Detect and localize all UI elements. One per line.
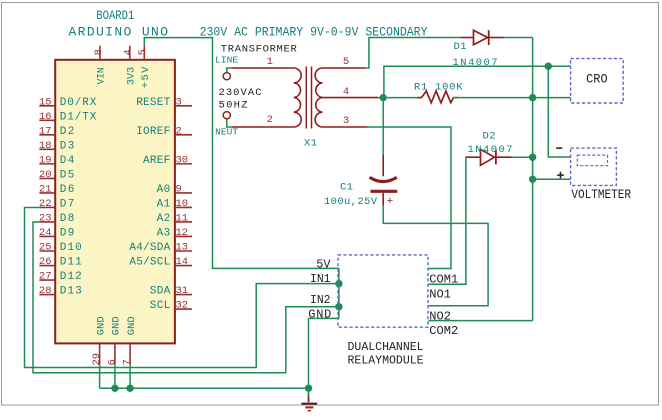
wire GND pin7 down [129, 364, 131, 388]
svg-text:AREF: AREF [143, 155, 170, 167]
wire CRO top lead [384, 66, 571, 97]
svg-text:D2: D2 [483, 130, 496, 142]
label plus [557, 174, 564, 176]
svg-text:D9: D9 [60, 227, 75, 239]
svg-text:8: 8 [93, 49, 105, 55]
wire ground rail [100, 387, 309, 389]
relay module box [338, 255, 428, 327]
pin 8 VIN (top) [93, 46, 108, 85]
svg-text:5V: 5V [316, 257, 331, 271]
wire pin4 to junction [378, 97, 383, 99]
svg-text:D12: D12 [60, 271, 82, 283]
ground symbol [301, 388, 317, 410]
pin 12 A3 (right) [157, 227, 193, 240]
svg-text:20: 20 [39, 169, 52, 181]
svg-text:6: 6 [106, 359, 118, 365]
svg-text:D2: D2 [60, 126, 75, 138]
pin 26 D11 (left) [39, 256, 82, 269]
wire C1 to NO2 [383, 205, 488, 306]
pin 3 RESET (right) [136, 96, 192, 109]
pin 4 wire X1 [323, 97, 379, 99]
svg-text:A5/SCL: A5/SCL [129, 257, 170, 269]
svg-text:GND: GND [126, 316, 138, 335]
svg-text:D6: D6 [60, 184, 75, 196]
svg-text:10: 10 [176, 198, 189, 210]
terminal LINE circle [223, 73, 230, 80]
junction GND pin7 [126, 385, 133, 392]
svg-text:29: 29 [91, 353, 103, 366]
wire NEUT terminal to pin2 [227, 119, 232, 127]
svg-text:1N4007: 1N4007 [468, 144, 513, 156]
svg-text:RELAYMODULE: RELAYMODULE [348, 354, 424, 368]
svg-text:17: 17 [39, 125, 52, 137]
svg-text:D13: D13 [60, 286, 82, 298]
svg-text:RESET: RESET [136, 97, 170, 109]
svg-text:VIN: VIN [96, 67, 108, 84]
arduino uno BOARD1 body [55, 60, 175, 344]
wire relay left pins vertical [338, 268, 340, 318]
svg-text:28: 28 [39, 285, 52, 297]
svg-text:23: 23 [39, 212, 52, 224]
diode D1 [461, 30, 504, 45]
svg-text:D8: D8 [60, 213, 75, 225]
svg-text:230VAC: 230VAC [219, 87, 262, 99]
svg-text:IN2: IN2 [310, 293, 331, 307]
svg-text:25: 25 [39, 242, 52, 254]
svg-text:13: 13 [176, 242, 189, 254]
svg-text:CRO: CRO [586, 72, 608, 86]
junction R1 / right bus [529, 94, 536, 101]
pin 30 AREF (right) [143, 154, 192, 167]
svg-text:GND: GND [95, 316, 107, 335]
wire relay GND to ground rail [309, 318, 339, 388]
wire pin3 to COM1 [368, 127, 451, 269]
junction relay IN1 [335, 280, 342, 287]
wire COM2/NO2 to right bus [429, 320, 533, 322]
pin 13 A4/SDA (right) [129, 242, 192, 255]
svg-text:26: 26 [39, 256, 52, 268]
pin 14 A5/SCL (right) [129, 256, 192, 269]
wire right bus vertical [532, 38, 534, 321]
svg-text:1: 1 [267, 56, 273, 68]
svg-text:21: 21 [39, 183, 52, 195]
pin 1 wire X1 [232, 67, 294, 69]
svg-text:1N4007: 1N4007 [453, 57, 498, 69]
svg-text:16: 16 [39, 111, 52, 123]
svg-text:SDA: SDA [150, 286, 171, 298]
svg-text:3V3: 3V3 [125, 67, 137, 85]
voltmeter inner display [577, 155, 607, 166]
pin 31 SDA (right) [150, 285, 192, 298]
junction X1 pin4 node [380, 94, 387, 101]
svg-text:GND: GND [111, 316, 123, 335]
wire R1 to right bus and CRO bottom lead [454, 97, 571, 99]
wire GND pin29 down [99, 364, 101, 388]
svg-text:NO2: NO2 [429, 310, 451, 324]
svg-text:100u,25V: 100u,25V [324, 196, 378, 208]
svg-text:D10: D10 [60, 242, 82, 254]
svg-text:32: 32 [176, 300, 189, 312]
pin 21 D6 (left) [39, 183, 75, 196]
pin 9 A0 (right) [157, 183, 193, 196]
svg-text:DUALCHANNEL: DUALCHANNEL [348, 340, 424, 354]
terminal NEUT circle [223, 112, 230, 119]
svg-text:2: 2 [176, 125, 182, 137]
svg-text:22: 22 [39, 198, 52, 210]
svg-text:14: 14 [176, 256, 189, 268]
svg-text:19: 19 [39, 154, 52, 166]
wire pin4 node down to C1 [382, 98, 384, 155]
pin 11 A2 (right) [157, 212, 193, 225]
svg-text:X1: X1 [304, 138, 317, 150]
svg-text:VOLTMETER: VOLTMETER [571, 188, 631, 202]
svg-text:SCL: SCL [150, 300, 170, 312]
svg-text:D1: D1 [454, 41, 467, 53]
svg-text:+5V: +5V [140, 66, 152, 88]
pin 15 D0/RX (left) [39, 96, 97, 109]
wire pin4 node up-over to CRO [382, 97, 385, 99]
pin 18 D3 (left) [39, 140, 75, 153]
pin 28 D13 (left) [39, 285, 82, 298]
svg-text:COM2: COM2 [429, 324, 458, 338]
pin 20 D5 (left) [39, 169, 75, 182]
pin 22 D7 (left) [39, 198, 75, 211]
pin 2 IOREF (right) [136, 125, 192, 138]
svg-text:24: 24 [39, 227, 52, 239]
junction GND pin6 [111, 385, 118, 392]
svg-text:COM1: COM1 [429, 272, 458, 286]
pin 16 D1/TX (left) [39, 111, 97, 124]
pin 5 wire X1 [323, 67, 366, 69]
svg-text:IN1: IN1 [310, 272, 331, 286]
resistor R1 [418, 97, 422, 99]
svg-text:A2: A2 [157, 213, 171, 225]
svg-text:D1/TX: D1/TX [60, 111, 97, 123]
svg-text:3: 3 [176, 96, 182, 108]
junction D2 cathode / right bus [529, 154, 536, 161]
svg-text:BOARD1: BOARD1 [96, 8, 134, 23]
svg-text:C1: C1 [340, 182, 353, 194]
pin 4 3V3 (top) [123, 46, 138, 85]
wire pin4 node to R1 [383, 97, 421, 99]
junction ground node [305, 385, 312, 392]
svg-text:50HZ: 50HZ [219, 100, 248, 112]
svg-text:30: 30 [176, 154, 189, 166]
pin 29 GND (bottom) [91, 316, 107, 365]
svg-text:9: 9 [176, 183, 182, 195]
wire D2 cathode to right bus [512, 156, 533, 158]
svg-text:15: 15 [39, 96, 52, 108]
svg-text:NO1: NO1 [429, 287, 451, 301]
pin 25 D10 (left) [39, 242, 82, 255]
svg-text:D0/RX: D0/RX [60, 97, 97, 109]
svg-text:R1 100K: R1 100K [414, 82, 463, 94]
svg-text:31: 31 [176, 285, 189, 297]
wire voltmeter plus lead [533, 178, 571, 180]
wire D7 to relay IN1 [25, 207, 339, 367]
junction voltmeter plus / right bus [529, 176, 536, 183]
pin 17 D2 (left) [39, 125, 75, 138]
wire NO1 to D2 anode [429, 157, 467, 284]
pin 10 A1 (right) [157, 198, 193, 211]
svg-text:TRANSFORMER: TRANSFORMER [221, 43, 298, 55]
svg-text:NEUT: NEUT [215, 127, 238, 138]
pin 23 D8 (left) [39, 212, 75, 225]
svg-text:GND: GND [308, 307, 331, 321]
pin 24 D9 (left) [39, 227, 75, 240]
svg-text:2: 2 [267, 114, 273, 126]
transformer X1 secondary coil [315, 68, 322, 127]
svg-text:D7: D7 [60, 198, 75, 210]
pin 19 D4 (left) [39, 154, 75, 167]
wire D1 cathode to right bus [504, 37, 533, 39]
svg-text:+: + [387, 196, 394, 208]
wire GND pin6 down [114, 364, 116, 388]
svg-text:27: 27 [39, 271, 52, 283]
svg-text:11: 11 [176, 212, 189, 224]
svg-text:A0: A0 [157, 184, 171, 196]
transformer X1 core [305, 67, 307, 129]
svg-text:5: 5 [137, 49, 149, 55]
svg-text:D5: D5 [60, 169, 75, 181]
junction CRO top / voltmeter minus branch [545, 62, 552, 69]
transformer X1 primary coil [294, 68, 301, 127]
svg-text:4: 4 [343, 86, 349, 98]
capacitor C1 [370, 155, 398, 208]
svg-text:3: 3 [343, 115, 349, 127]
svg-text:4: 4 [123, 49, 135, 55]
pin 27 D12 (left) [39, 271, 82, 284]
label minus [556, 147, 562, 149]
pin 3 wire X1 [323, 126, 368, 128]
diode D2 [466, 149, 512, 165]
svg-text:LINE: LINE [215, 55, 238, 66]
svg-text:12: 12 [176, 227, 189, 239]
svg-text:A1: A1 [157, 198, 171, 210]
pin 6 GND (bottom) [106, 316, 122, 365]
pin 5 +5V (top) [137, 46, 152, 88]
svg-text:D4: D4 [60, 155, 75, 167]
CRO box [571, 59, 624, 103]
svg-text:A4/SDA: A4/SDA [129, 242, 170, 254]
svg-text:D11: D11 [60, 257, 82, 269]
svg-text:5: 5 [343, 56, 349, 68]
svg-text:IOREF: IOREF [136, 126, 170, 138]
pin 32 SCL (right) [150, 300, 192, 313]
junction relay IN2 [335, 303, 342, 310]
pin 7 GND (bottom) [122, 316, 138, 365]
svg-text:D3: D3 [60, 140, 75, 152]
svg-text:18: 18 [39, 140, 52, 152]
wire +5V pin to relay 5V [144, 38, 339, 269]
wire LINE terminal to pin1 [227, 68, 232, 72]
wire D8 to relay IN2 [33, 222, 339, 373]
wire voltmeter minus branch [548, 66, 570, 157]
voltmeter box [571, 148, 617, 185]
wire pin5 up to D1 line [365, 38, 461, 69]
svg-text:A3: A3 [157, 227, 171, 239]
svg-text:7: 7 [122, 359, 134, 365]
pin 2 wire X1 [232, 126, 294, 128]
